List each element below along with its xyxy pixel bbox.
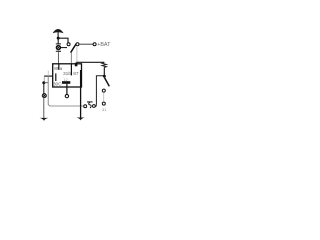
wire fuse to relay pin xyxy=(57,52,59,64)
relay coil xyxy=(62,81,70,84)
switch S1 contact b xyxy=(76,43,79,46)
terminal +BAT xyxy=(93,43,96,46)
wire resistor to node xyxy=(103,67,105,75)
flasher bimetal element xyxy=(87,102,93,108)
node junction on supply line xyxy=(57,37,60,40)
wire lamp to ground xyxy=(43,98,45,118)
relay output terminal xyxy=(65,94,68,97)
switch S1 contact a xyxy=(67,43,70,46)
wire node to flasher return xyxy=(96,76,104,105)
node junction lamp branch xyxy=(42,81,45,84)
lamp L1 xyxy=(42,94,46,98)
wire supply node to fuse xyxy=(57,38,59,43)
ground lamp xyxy=(40,118,49,121)
svg-text:+BAT: +BAT xyxy=(97,42,111,48)
relay pin bar left xyxy=(55,73,57,81)
svg-text:30C: 30C xyxy=(53,81,62,87)
svg-text:31b: 31b xyxy=(63,71,71,77)
switch S2 contact xyxy=(102,89,105,92)
wire link to node xyxy=(43,76,45,81)
relay pin bar from S1 pivot xyxy=(70,64,72,75)
wire relay left pin xyxy=(44,75,53,77)
fuse F1 xyxy=(56,44,67,51)
wire branch to resistor R1 xyxy=(76,61,104,63)
switch S1 pivot wire to relay xyxy=(70,52,72,63)
svg-text:87: 87 xyxy=(73,71,79,77)
terminal 31 xyxy=(102,102,105,105)
switch S1 lever xyxy=(71,44,77,53)
wire node to return line xyxy=(44,82,48,84)
wire node to lamp xyxy=(43,84,45,94)
resistor R1 xyxy=(102,62,106,67)
node junction at switch S2 xyxy=(103,75,106,78)
flasher contact a xyxy=(84,105,87,108)
relay pin blob 30 xyxy=(75,63,78,67)
wire S2 contact to terminal 31 xyxy=(103,92,105,101)
wire S1 contact b down to relay pin 30 xyxy=(76,47,78,62)
battery supply arrow xyxy=(53,29,64,37)
relay K1 body xyxy=(53,64,82,87)
relay pin 87 wire to ground xyxy=(80,70,82,118)
return wire down and across xyxy=(48,71,83,106)
relay coil pin down xyxy=(66,84,68,95)
flasher contact b xyxy=(93,105,96,108)
wire to switch S1 fixed contact xyxy=(58,38,68,43)
ground 87 xyxy=(76,118,84,121)
svg-text:31: 31 xyxy=(102,107,107,112)
wire to +BAT terminal xyxy=(79,43,93,45)
relay pin bar from fuse xyxy=(58,64,60,69)
switch S2 lever xyxy=(105,78,110,87)
